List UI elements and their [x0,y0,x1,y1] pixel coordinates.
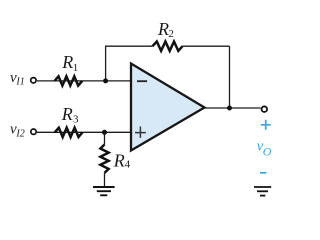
svg-text:I1: I1 [15,77,24,88]
svg-text:2: 2 [168,28,174,40]
wire: vI2 input to non-inverting input [37,131,130,133]
junction: R1 / feedback node [103,78,108,83]
wire: top feedback left segment [105,45,153,47]
wire: feedback riser from R1 node [105,46,107,81]
svg-text:R: R [113,151,125,171]
svg-text:4: 4 [125,158,131,170]
resistor R4 [100,145,108,173]
resistor R3 [55,128,83,137]
wire: top feedback right segment [183,45,230,47]
output polarity minus [260,172,266,174]
svg-text:R: R [61,52,73,72]
resistor R1 [55,76,83,85]
svg-text:3: 3 [73,113,79,125]
svg-text:R: R [61,104,73,124]
op-amp U1 [131,64,205,151]
svg-text:R: R [157,19,169,39]
wire: R4 to ground [104,173,106,187]
svg-text:1: 1 [73,62,79,74]
output polarity plus [261,120,271,130]
junction: output node [227,106,232,111]
wire: vI1 input to inverting input [37,80,130,82]
ground (below R4) [93,187,115,195]
terminal vI2 [31,129,36,134]
wire: R4 branch down from vI2 node [104,132,106,144]
terminal vI1 [31,78,36,83]
svg-text:O: O [263,145,272,159]
resistor R2 [153,42,183,51]
op-amp inverting pin mark [137,80,147,82]
ground (output reference) [254,187,271,196]
junction: R3 / R4 node [102,130,107,135]
wire: op-amp output [205,107,261,109]
wire: feedback drop to output node [229,46,231,108]
op-amp non-inverting pin mark [135,127,146,138]
svg-text:I2: I2 [15,128,24,139]
terminal vO [262,106,268,112]
